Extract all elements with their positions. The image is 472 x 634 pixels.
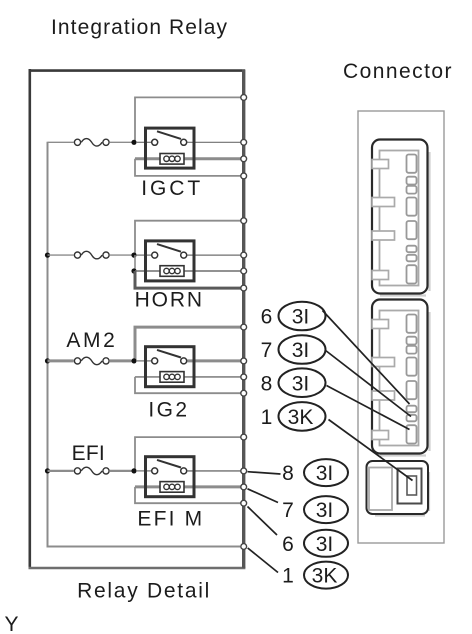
connector block J1 upper pin slots	[407, 155, 417, 284]
connector block J2 middle housing	[372, 300, 428, 454]
relay detail box bottom edge	[29, 567, 246, 570]
svg-text:3K: 3K	[288, 406, 314, 429]
junction left feed EFI	[45, 468, 50, 473]
net label 3K pin 1 lower	[304, 562, 348, 589]
leader wire lower 1 from terminal	[248, 472, 281, 474]
coil IG2	[160, 372, 184, 383]
wire fuse IGCT to relay	[110, 141, 132, 143]
junction IG2 switch node	[131, 358, 136, 363]
wire fuse HORN to relay	[110, 254, 132, 256]
net label 3I pin 6 lower	[304, 530, 348, 557]
connector block J2 middle shadow	[380, 312, 430, 456]
terminals HORN on bus	[241, 218, 247, 291]
wire fuse EFIM to relay	[110, 470, 132, 472]
svg-text:3I: 3I	[316, 533, 334, 556]
svg-text:Integration Relay: Integration Relay	[51, 16, 228, 39]
wire HORN bottom loop	[135, 271, 242, 288]
wire IGCT coil row	[135, 157, 242, 160]
svg-text:1: 1	[261, 406, 273, 429]
fuse HORN	[74, 251, 109, 259]
wire HORN coil row	[135, 270, 242, 272]
wire IG2 bottom loop	[135, 377, 242, 393]
leader wire upper 3 to connector pin	[327, 386, 410, 430]
relay IG2 box	[146, 347, 195, 387]
svg-text:8: 8	[261, 372, 273, 395]
switch contacts HORN	[152, 252, 187, 258]
net label 3I pin 8 lower	[304, 459, 348, 486]
svg-text:EFI: EFI	[72, 442, 105, 465]
connector block J3 pin frame	[398, 469, 422, 504]
connector outer housing	[358, 111, 444, 543]
junction left feed IG2	[45, 358, 50, 363]
svg-text:6: 6	[282, 533, 294, 556]
svg-text:Relay Detail: Relay Detail	[77, 579, 209, 602]
relay HORN box	[146, 241, 195, 281]
relay detail box top edge	[29, 69, 246, 72]
connector block J1 upper shadow	[380, 152, 430, 296]
junction EFIM switch node	[131, 468, 136, 473]
switch blade HORN	[157, 244, 181, 252]
leader wire upper 2 to connector pin	[325, 350, 411, 417]
connector block J3 cavity	[369, 468, 392, 511]
svg-text:3I: 3I	[292, 372, 310, 395]
switch blade EFIM	[157, 460, 181, 468]
switch contacts IGCT	[152, 139, 187, 145]
net label 3K pin 1	[279, 402, 326, 431]
svg-text:1: 1	[282, 565, 294, 588]
wire fuse feed HORN left	[48, 254, 74, 256]
net label 3I pin 6	[279, 302, 326, 331]
junction IGCT switch node	[131, 140, 136, 145]
connector block J3 pin slot	[407, 476, 417, 495]
junction HORN switch node	[131, 253, 136, 258]
junction left feed HORN	[45, 253, 50, 258]
relay EFIM box	[146, 457, 195, 497]
svg-text:AM2: AM2	[66, 329, 114, 352]
wire fuse feed IGCT left	[48, 141, 74, 143]
switch contacts EFIM	[152, 468, 187, 474]
net label 3I pin 7	[279, 335, 326, 364]
connector block J1 upper housing	[372, 140, 428, 294]
wire left feed vertical	[48, 142, 241, 547]
svg-text:3I: 3I	[316, 499, 334, 522]
relay IGCT box	[146, 128, 195, 168]
wire IGCT bottom loop	[135, 159, 242, 176]
svg-text:3I: 3I	[292, 339, 310, 362]
fuse IGCT	[74, 139, 109, 147]
terminals IGCT on bus	[241, 95, 247, 179]
wire IG2 switch out	[187, 359, 242, 362]
svg-text:3I: 3I	[292, 306, 310, 329]
leader wire lower 4 from terminal	[248, 548, 278, 573]
coil EFIM	[160, 482, 184, 493]
switch contacts IG2	[152, 358, 187, 364]
wire IGCT switch out	[187, 141, 242, 143]
connector block J2 middle pin slots	[407, 315, 417, 444]
leader wire lower 2 from terminal	[248, 489, 279, 503]
wire IG2 coil row	[135, 376, 242, 378]
wire HORN switch out	[187, 254, 242, 256]
fuse IG2	[74, 357, 109, 365]
wire EFIM coil row	[135, 485, 242, 488]
relay detail box left edge	[28, 69, 31, 569]
svg-text:7: 7	[261, 339, 273, 362]
wire EFIM bottom loop	[135, 487, 242, 503]
wire fuse feed EFIM left	[48, 470, 74, 472]
wire IGCT top loop	[135, 97, 242, 142]
svg-text:EFI M: EFI M	[137, 508, 202, 531]
wire EFIM top loop	[135, 437, 242, 471]
leader wire upper 4 to connector pin	[329, 420, 413, 481]
wire IGCT switch in	[136, 141, 151, 143]
coil HORN	[160, 266, 184, 277]
wire HORN top loop	[135, 221, 242, 255]
svg-text:6: 6	[261, 306, 273, 329]
wire HORN node vertical	[134, 255, 136, 271]
svg-text:7: 7	[282, 499, 294, 522]
svg-text:3K: 3K	[312, 565, 338, 588]
connector block J2 middle key tabs	[372, 320, 395, 440]
fuse EFIM	[74, 467, 109, 475]
bus wire right edge	[242, 70, 245, 569]
svg-text:Y: Y	[5, 613, 19, 634]
connector block J1 upper key tabs	[372, 160, 395, 280]
svg-text:IGCT: IGCT	[141, 177, 200, 200]
terminals EFIM on bus	[241, 434, 247, 506]
svg-text:IG2: IG2	[148, 398, 187, 421]
leader wire lower 3 from terminal	[248, 507, 278, 536]
terminal 1 bottom	[241, 544, 247, 550]
net label 3I pin 8	[279, 368, 326, 397]
connector block J2 middle cavity	[380, 311, 419, 446]
wire EFIM switch in	[136, 470, 151, 472]
switch blade IGCT	[157, 131, 181, 139]
wire HORN switch in	[136, 254, 151, 256]
switch blade IG2	[157, 350, 181, 358]
wire EFIM switch out	[187, 470, 242, 472]
svg-text:8: 8	[282, 462, 294, 485]
coil IGCT	[160, 154, 184, 165]
connector block J1 upper cavity	[380, 151, 419, 286]
connector block J3 housing	[367, 461, 429, 514]
wire fuse IG2 to relay	[110, 359, 132, 362]
svg-text:Connector: Connector	[343, 60, 452, 83]
junction HORN coil node	[131, 268, 136, 273]
connector block J3 shadow	[375, 472, 429, 516]
leader wire upper 1 to connector pin	[323, 311, 410, 405]
wire IG2 top loop	[135, 327, 242, 361]
svg-text:3I: 3I	[316, 462, 334, 485]
net label 3I pin 7 lower	[304, 496, 348, 523]
wire IG2 switch in	[136, 360, 151, 362]
terminals IG2 on bus	[241, 324, 247, 396]
wire fuse feed IG2 left	[48, 359, 74, 362]
